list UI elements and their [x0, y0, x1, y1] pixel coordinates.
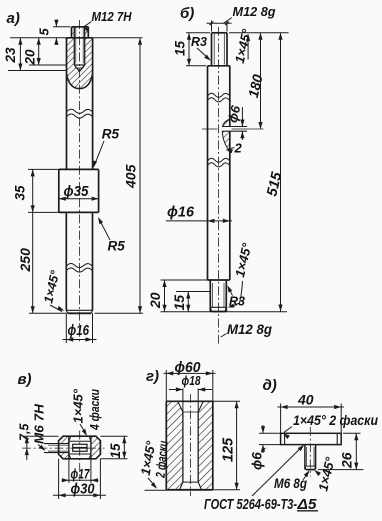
- svg-text:23: 23: [3, 47, 18, 64]
- svg-text:ГОСТ 5264-69-Т3-: ГОСТ 5264-69-Т3-: [204, 497, 297, 513]
- svg-text:15: 15: [108, 443, 123, 459]
- svg-text:20: 20: [23, 49, 38, 66]
- svg-text:ϕ16: ϕ16: [167, 205, 195, 221]
- svg-text:R5: R5: [102, 127, 120, 142]
- svg-text:4 фаски: 4 фаски: [87, 389, 102, 431]
- svg-text:ϕ60: ϕ60: [175, 360, 201, 376]
- svg-text:15: 15: [173, 40, 188, 56]
- svg-text:35: 35: [13, 185, 28, 201]
- svg-text:ϕ30: ϕ30: [71, 481, 96, 498]
- svg-text:б): б): [180, 5, 194, 22]
- svg-text:2: 2: [234, 141, 243, 156]
- svg-text:M12 8g: M12 8g: [233, 4, 276, 19]
- svg-text:R3: R3: [191, 35, 207, 49]
- svg-text:г): г): [146, 368, 159, 385]
- svg-text:15: 15: [171, 295, 187, 311]
- svg-text:7,5: 7,5: [18, 423, 32, 441]
- svg-text:M12 7H: M12 7H: [92, 9, 133, 24]
- svg-text:250: 250: [17, 248, 33, 273]
- svg-text:5: 5: [37, 28, 52, 36]
- svg-text:М12 8g: М12 8g: [227, 321, 272, 337]
- svg-text:R5: R5: [108, 239, 126, 254]
- svg-text:26: 26: [339, 452, 355, 469]
- svg-text:1×45° 2 фаски: 1×45° 2 фаски: [293, 413, 379, 428]
- svg-text:M6 7H: M6 7H: [32, 403, 47, 444]
- svg-text:20: 20: [147, 292, 163, 309]
- svg-text:ϕ35: ϕ35: [64, 183, 90, 200]
- svg-text:ϕ16: ϕ16: [68, 323, 90, 339]
- svg-text:40: 40: [297, 392, 314, 408]
- svg-text:405: 405: [123, 164, 139, 189]
- svg-text:д): д): [263, 377, 277, 394]
- svg-text:1×45°: 1×45°: [71, 388, 86, 423]
- svg-text:в): в): [18, 371, 32, 388]
- svg-text:125: 125: [221, 437, 237, 462]
- svg-text:ϕ17: ϕ17: [71, 466, 91, 482]
- svg-text:а): а): [7, 10, 20, 27]
- svg-text:ϕ6: ϕ6: [250, 452, 265, 470]
- svg-text:М6 8g: М6 8g: [274, 475, 307, 491]
